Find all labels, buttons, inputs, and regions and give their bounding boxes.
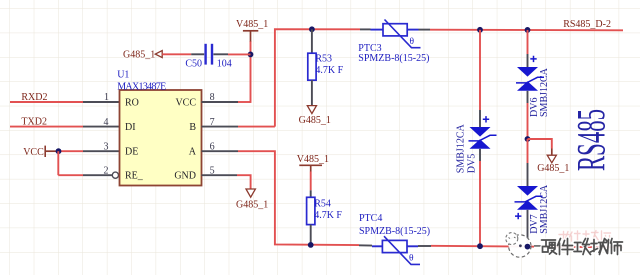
junction C50 / V485_1 node: [248, 52, 254, 58]
svg-text:7: 7: [210, 117, 215, 128]
svg-text:U1: U1: [117, 70, 129, 81]
svg-text:SMBJ12CA: SMBJ12CA: [539, 67, 550, 117]
svg-text:2: 2: [104, 165, 109, 176]
svg-text:SMBJ12CA: SMBJ12CA: [456, 124, 467, 174]
plus mark DV5: [483, 116, 489, 122]
svg-text:RS485_D-2: RS485_D-2: [563, 19, 611, 30]
pin 3 of U1: [83, 141, 120, 152]
wire pin 6 to bottom riser: [238, 151, 359, 245]
wire riser x=250.5: [250, 41, 252, 103]
junction R53 / top rail: [309, 26, 315, 32]
wire to pin 2: [58, 174, 83, 176]
svg-text:R54: R54: [314, 198, 331, 209]
svg-text:3: 3: [104, 141, 109, 152]
top rail wire right of PTC3: [430, 29, 623, 32]
power port G485_1 left arrow: [123, 49, 162, 60]
ground port G485_1 below R53: [299, 106, 331, 126]
svg-text:G485_1: G485_1: [123, 49, 155, 60]
ground port G485_1 below pin 5: [236, 189, 268, 210]
svg-text:GND: GND: [174, 171, 196, 182]
pin 8 of U1: [202, 92, 239, 103]
svg-text:G485_1: G485_1: [236, 199, 268, 210]
pin 7 of U1: [202, 117, 239, 128]
thermistor PTC3 SPMZB-8(15-25): [358, 20, 430, 65]
junction DV7 / bottom rail (over watermark): [525, 244, 531, 250]
svg-text:R53: R53: [315, 53, 332, 64]
svg-text:104: 104: [217, 59, 232, 70]
wire V485_1 to R54: [310, 172, 312, 191]
watermark text 硬件攻城师: [542, 239, 623, 255]
svg-text:C50: C50: [185, 59, 202, 70]
svg-text:RO: RO: [125, 97, 139, 108]
svg-text:DI: DI: [125, 122, 136, 133]
svg-text:B: B: [189, 122, 196, 133]
svg-text:5: 5: [210, 165, 215, 176]
pin 2 of U1 (inverted): [83, 165, 119, 178]
svg-text:SPMZB-8(15-25): SPMZB-8(15-25): [359, 226, 430, 237]
svg-text:RXD2: RXD2: [21, 92, 47, 103]
power port V485_1 above R54: [297, 154, 329, 172]
junction DV6 / DV7 node: [525, 136, 531, 142]
junction DV5 / bottom rail: [477, 243, 483, 249]
TVS diode DV5 SMBJ12CA: [456, 30, 497, 246]
svg-text:DE: DE: [125, 147, 138, 158]
junction R54 / bottom rail: [308, 242, 314, 248]
svg-text:V485_1: V485_1: [297, 154, 329, 165]
pin 4 of U1: [83, 117, 120, 128]
wire RXD2 to pin 1: [10, 101, 83, 103]
svg-text:VCC: VCC: [23, 147, 44, 158]
svg-text:G485_1: G485_1: [299, 115, 331, 126]
watermark dash: [534, 244, 542, 249]
svg-text:PTC4: PTC4: [359, 213, 382, 224]
svg-text:θ: θ: [409, 254, 414, 264]
svg-text:8: 8: [210, 92, 215, 103]
capacitor C50 value 104: [185, 44, 231, 70]
pin 5 of U1: [202, 165, 238, 176]
svg-text:TXD2: TXD2: [21, 116, 47, 127]
svg-text:RE_: RE_: [125, 171, 144, 182]
wire C50 to junction: [228, 53, 251, 55]
resistor R54 4.7K: [307, 190, 343, 245]
junction DV6 / top rail: [525, 27, 531, 33]
thermistor PTC4 SPMZB-8(15-25): [359, 213, 431, 265]
power port VCC: [23, 146, 58, 158]
wire node to G485_1 arrow: [528, 139, 552, 149]
watermark logo: [506, 233, 531, 258]
wire pin 7 to riser: [238, 126, 275, 128]
svg-text:SMBJ12CA: SMBJ12CA: [539, 184, 550, 234]
wire pin 5 to ground: [237, 175, 251, 188]
TVS diode DV7 SMBJ12CA: [515, 139, 550, 247]
wire TXD2 to pin 4: [10, 126, 83, 128]
resistor R53 4.7K: [308, 29, 344, 105]
svg-text:V485_1: V485_1: [236, 19, 268, 30]
svg-text:A: A: [189, 147, 197, 158]
svg-text:SPMZB-8(15-25): SPMZB-8(15-25): [358, 53, 429, 64]
svg-text:MAX13487E: MAX13487E: [117, 81, 166, 92]
svg-text:6: 6: [210, 141, 215, 152]
svg-text:4.7K F: 4.7K F: [315, 65, 343, 76]
pin 6 of U1: [202, 141, 239, 152]
svg-text:1: 1: [104, 92, 109, 103]
op-amp / transceiver IC U1 MAX13487E: [117, 70, 201, 186]
wire VCC down to pin 2 row: [57, 151, 59, 175]
svg-text:4: 4: [104, 117, 109, 128]
bottom rail wire right of PTC4: [431, 246, 623, 248]
wire riser B line: [275, 29, 360, 126]
TVS diode DV6 SMBJ12CA: [516, 30, 550, 139]
watermark pink echo: [559, 231, 611, 242]
junction DV7 / bottom rail: [525, 244, 531, 250]
power port V485_1 top: [236, 19, 268, 42]
plus mark DV7: [515, 213, 521, 219]
wire pin 8 to V485_1 riser: [238, 101, 251, 103]
svg-text:θ: θ: [410, 37, 415, 47]
ground port G485_1 right of DV6: [537, 149, 569, 174]
svg-text:4.7K F: 4.7K F: [314, 210, 342, 221]
wire G485_1 to C50: [162, 53, 191, 55]
junction VCC node: [56, 148, 62, 154]
pin 1 of U1: [83, 92, 120, 103]
plus mark DV6: [530, 56, 536, 62]
junction DV5 / top rail: [477, 27, 483, 33]
svg-text:RS485: RS485: [569, 109, 614, 171]
svg-text:VCC: VCC: [175, 97, 196, 108]
svg-text:DV5: DV5: [467, 154, 478, 173]
svg-text:G485_1: G485_1: [537, 163, 569, 174]
wire VCC to pin 3: [58, 150, 83, 152]
